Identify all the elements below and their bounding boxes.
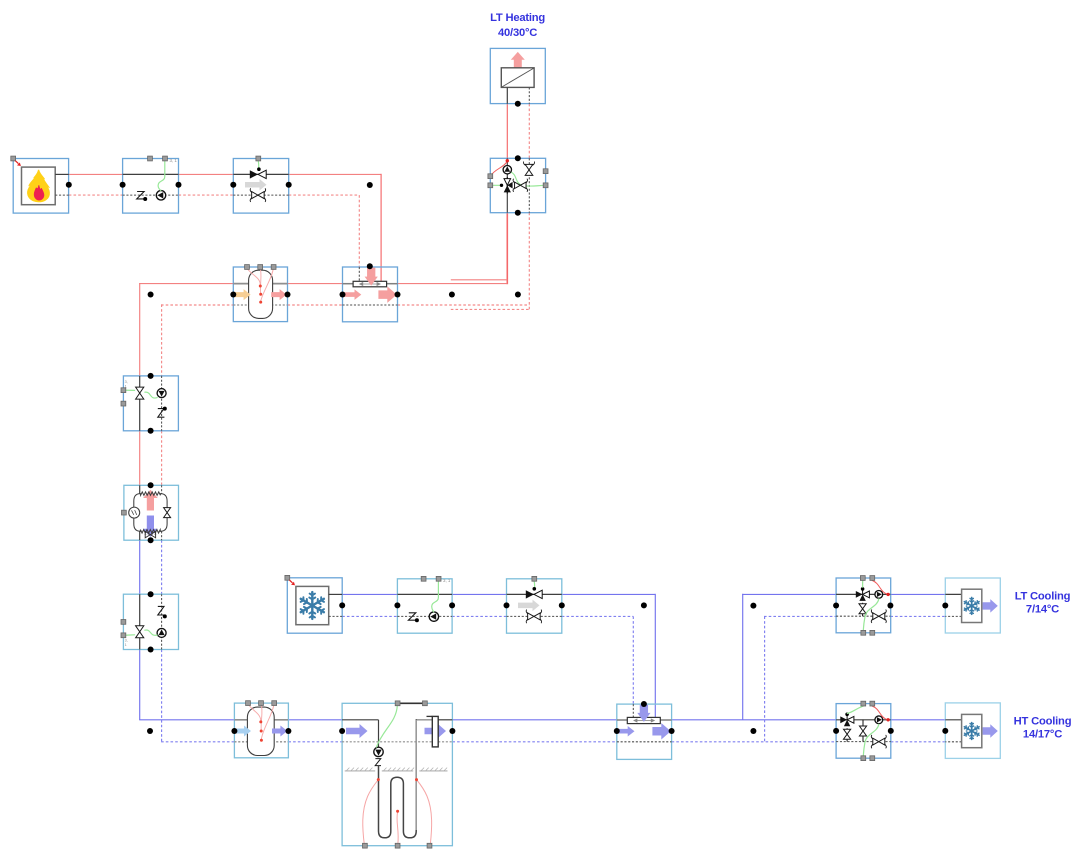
LT heating unit handles xyxy=(488,174,493,179)
LT heating emitter radiator symbol xyxy=(501,68,534,88)
HT cooling valve group xyxy=(836,704,891,759)
boiler flow marker arrow xyxy=(15,161,18,164)
borefield top handles xyxy=(398,702,425,704)
wire cooling supply corner to buffer xyxy=(139,719,234,721)
buffer cooling outlet arrow xyxy=(272,726,287,737)
node heating valve unit outlet xyxy=(286,182,292,188)
pump cooling generation return xyxy=(157,628,166,637)
node heating header mid junction xyxy=(449,292,455,298)
balancing valve LT cooling bypass xyxy=(862,603,864,616)
borefield separator bar xyxy=(432,716,438,747)
LT heating pump valve unit xyxy=(490,158,545,212)
LT heating emitter heat arrow xyxy=(511,52,525,69)
three-way valve LT heating xyxy=(506,177,508,194)
node manifold heating left xyxy=(340,292,346,298)
balancing valve LT heating return xyxy=(525,164,533,170)
HT cooling emitter supply stub xyxy=(945,719,961,721)
wire cooling return borefield to manifold xyxy=(452,741,616,743)
heating pump control line xyxy=(158,161,165,191)
wire heating supply pump unit to valve unit xyxy=(179,173,234,175)
node HT cooling group outlet xyxy=(888,728,894,734)
check valve cooling generation xyxy=(158,606,165,615)
buffer cooling stratification curves xyxy=(248,704,261,722)
buffer cooling handles xyxy=(246,701,251,706)
borefield bottom handles xyxy=(363,843,368,848)
chiller corner handle xyxy=(285,575,290,580)
chiller snowflake icon xyxy=(311,592,313,605)
heating valve unit return line xyxy=(233,194,288,196)
node buffer cooling outlet xyxy=(285,728,291,734)
manifold cooling bar xyxy=(627,717,660,723)
heat pump cold arrow xyxy=(143,516,158,537)
node LT cooling riser bottom junction xyxy=(750,728,756,734)
wire chilled supply valve group to drop xyxy=(562,593,655,595)
boiler return stub xyxy=(55,194,69,196)
node manifold cooling right xyxy=(669,728,675,734)
borefield ground surface hatch xyxy=(345,770,376,772)
pump LT cooling xyxy=(875,591,883,599)
wire cooling supply heat pump to pump group xyxy=(139,540,141,594)
borefield supply line left xyxy=(342,719,378,721)
balancing valve LT cooling return xyxy=(873,613,879,620)
LT heating emitter return stub xyxy=(528,87,530,103)
svg-text:HT Cooling: HT Cooling xyxy=(1014,716,1072,728)
wire heating header supply manifold to riser xyxy=(398,283,508,285)
manifold heating feed arrow xyxy=(365,268,378,286)
wire heating supply valve unit to manifold riser xyxy=(289,173,381,175)
LT heating emitter supply stub xyxy=(506,87,508,103)
wire LT cooling supply valve group to emitter xyxy=(890,593,945,595)
node LT cooling riser top junction xyxy=(750,603,756,609)
wire heating return pump unit to valve unit xyxy=(179,194,234,196)
node V1 top xyxy=(148,373,154,379)
node buffer cooling inlet xyxy=(231,728,237,734)
node buffer heating inlet xyxy=(230,292,236,298)
chiller xyxy=(287,578,342,633)
LT cooling emitter arrow xyxy=(983,599,998,613)
pump borefield xyxy=(374,747,383,756)
node heating header riser junction xyxy=(515,292,521,298)
LT heating emitter unit xyxy=(490,48,545,103)
manifold cooling branch arrow small xyxy=(618,726,635,737)
heat pump bottom valve xyxy=(145,534,157,536)
node V2 top xyxy=(148,591,154,597)
LT cooling supply line xyxy=(836,593,890,595)
node heating top corner junction xyxy=(367,182,373,188)
wire cooling return HT valve group to emitter xyxy=(891,741,946,743)
valve heating generation supply xyxy=(136,387,144,393)
heat pump inlet stubs xyxy=(139,485,141,494)
boiler supply stub xyxy=(55,173,69,175)
borefield control line xyxy=(377,706,398,748)
wire cooling supply manifold to HT riser xyxy=(672,719,837,721)
node heating valve unit inlet xyxy=(230,182,236,188)
wire heating header return left segment xyxy=(161,304,233,306)
wire heating header supply parallel segment xyxy=(451,279,508,281)
wire LT cooling return riser xyxy=(764,616,766,741)
heat pump refrigerant circuit xyxy=(134,492,167,533)
node LT heating unit top xyxy=(515,155,521,161)
balancing valve chilled return xyxy=(528,613,534,620)
svg-text:1: 1 xyxy=(125,385,127,389)
wire LT cooling supply riser to valve group xyxy=(742,593,836,595)
svg-text:40/30°C: 40/30°C xyxy=(498,27,537,39)
heating pump unit return line xyxy=(123,194,179,196)
node HT cooling emitter inlet xyxy=(942,728,948,734)
C2 flow arrow xyxy=(518,600,540,612)
wire heating return valve group to heat pump xyxy=(161,431,163,486)
HT cooling supply line xyxy=(836,719,891,721)
node heating pump unit outlet xyxy=(176,182,182,188)
heat pump compressor xyxy=(129,507,140,518)
wire LT heating return riser pump unit to header xyxy=(528,213,530,310)
wire heating return drop to generation group xyxy=(161,304,163,376)
borefield return dashed line xyxy=(342,741,432,743)
wire chilled return valve group to drop xyxy=(562,615,634,617)
buffer cooling inlet arrow xyxy=(236,726,251,737)
node C1 inlet xyxy=(394,602,400,608)
heating pump unit xyxy=(123,159,179,214)
borefield U-tube return leg overlay xyxy=(415,720,417,830)
V2 supply line xyxy=(139,594,141,649)
HT cooling pump signal xyxy=(872,706,886,719)
distribution manifold cooling xyxy=(617,704,672,759)
wire heating return boiler to pump unit xyxy=(69,194,123,196)
node manifold cooling top xyxy=(641,701,647,707)
borefield ground source unit xyxy=(342,703,452,845)
buffer vessel cooling xyxy=(234,703,288,758)
C2 handle xyxy=(532,576,537,581)
wire LT cooling return valve group to emitter xyxy=(890,615,945,617)
manifold cooling branch arrow large xyxy=(652,723,670,740)
three-way valve HT cooling xyxy=(846,715,848,720)
C2 control signal line xyxy=(533,582,536,589)
wire cooling return buffer to borefield xyxy=(288,741,342,743)
HT cooling group handles xyxy=(861,701,866,706)
manifold cooling feed arrow xyxy=(637,705,650,722)
LT cooling return line xyxy=(836,615,890,617)
wire cooling return heat pump to pump group xyxy=(161,540,163,594)
cooling generation pump group xyxy=(123,594,178,649)
node HT cooling group inlet xyxy=(833,728,839,734)
heating control valve signal line xyxy=(257,161,260,168)
heating valve unit handle xyxy=(256,156,261,161)
node chilled drop junction xyxy=(641,602,647,608)
valve cooling generation supply xyxy=(136,626,144,632)
balancing valve LT heating bypass xyxy=(515,182,521,189)
pump LT heating supply xyxy=(503,166,511,174)
heating valve unit supply line xyxy=(233,173,288,175)
wire heating header supply buffer to manifold xyxy=(288,283,343,285)
LT cooling group handles xyxy=(860,576,865,581)
node manifold cooling left xyxy=(614,728,620,734)
manifold heating branch arrow large xyxy=(378,286,396,303)
chilled water pump unit xyxy=(397,579,452,633)
wire cooling return manifold to HT riser xyxy=(672,741,837,743)
heat pump expansion valve xyxy=(164,508,171,513)
wire chilled supply pump group to valve group xyxy=(452,593,506,595)
balancing valve HT cooling branch xyxy=(846,728,848,741)
V2 handles xyxy=(121,620,126,625)
node boiler outlet xyxy=(66,182,72,188)
chilled water valve unit xyxy=(507,579,562,633)
C1 handles xyxy=(421,576,426,581)
node chiller outlet xyxy=(339,602,345,608)
V1 return line xyxy=(161,376,163,431)
LT cooling pump signal xyxy=(872,581,886,595)
node cooling bottom left corner junction xyxy=(147,728,153,734)
check valve chilled return xyxy=(408,613,416,620)
wire LT heating return emitter to pump unit xyxy=(528,104,530,159)
heat pump hot arrow xyxy=(143,490,158,511)
node manifold heating right xyxy=(395,292,401,298)
borefield inlet arrow xyxy=(346,724,368,738)
HT cooling emitter xyxy=(945,703,1000,759)
wire cooling return down from pump group xyxy=(161,650,163,742)
node buffer heating outlet xyxy=(285,292,291,298)
LT heating unit supply line xyxy=(506,158,508,212)
wire cooling supply HT valve group to emitter xyxy=(891,719,946,721)
chiller supply stub xyxy=(329,593,343,595)
HT cooling emitter arrow xyxy=(983,724,998,738)
wire heating header supply left segment xyxy=(139,283,233,285)
node C2 inlet xyxy=(504,602,510,608)
node heat pump bottom xyxy=(148,537,154,543)
control valve chilled supply xyxy=(526,590,534,598)
LT heating unit control lines xyxy=(490,184,500,186)
node heating pump unit inlet xyxy=(120,182,126,188)
LT heating unit return line xyxy=(528,158,530,212)
C2 return line xyxy=(507,615,562,617)
V1 control lines xyxy=(123,389,134,391)
chiller flow marker arrow xyxy=(289,580,292,583)
HT cooling emitter return stub xyxy=(945,741,961,743)
wire heating header return parallel segment xyxy=(451,308,530,310)
V1 handles xyxy=(121,388,126,393)
borefield outlet arrow xyxy=(425,724,447,738)
LT cooling emitter xyxy=(945,578,1000,633)
node borefield inlet xyxy=(339,728,345,734)
wire heating header return buffer to manifold xyxy=(288,304,343,306)
buffer heating stratification curves xyxy=(247,268,261,286)
svg-text:3, 1: 3, 1 xyxy=(443,578,451,583)
heating pump unit supply line xyxy=(123,173,179,175)
node C1 outlet xyxy=(449,602,455,608)
LT cooling emitter supply stub xyxy=(945,593,961,595)
wire heating supply drop to generation group xyxy=(139,283,141,376)
node manifold heating top xyxy=(367,263,373,269)
heating valve unit flow arrow xyxy=(245,179,267,191)
V2 return line xyxy=(161,594,163,649)
balancing valve HT cooling bypass xyxy=(862,720,864,742)
LT cooling emitter return stub xyxy=(945,615,961,617)
svg-text:3, 1: 3, 1 xyxy=(170,158,178,163)
wire chilled supply drop to manifold xyxy=(654,594,656,718)
boiler corner handle xyxy=(11,156,16,161)
check valve borefield xyxy=(375,759,381,766)
svg-text:14/17°C: 14/17°C xyxy=(1023,729,1062,741)
borefield return line right xyxy=(416,719,432,721)
node LT cooling emitter inlet xyxy=(942,603,948,609)
manifold heating return drop inside xyxy=(358,267,360,281)
wire heating supply valve group to heat pump xyxy=(139,431,141,486)
HT cooling emitter coil symbol xyxy=(962,714,982,747)
wire cooling supply down from pump group xyxy=(139,650,141,720)
C1 control line xyxy=(432,582,439,612)
node borefield outlet xyxy=(449,728,455,734)
balancing valve heating return xyxy=(252,192,258,199)
C2 supply line xyxy=(507,593,562,595)
node LT heating emitter connection xyxy=(515,101,521,107)
check valve heating return xyxy=(137,192,145,199)
wire LT heating supply emitter to pump unit xyxy=(506,104,508,159)
heat pump xyxy=(124,485,179,540)
boiler xyxy=(13,159,68,214)
node LT heating unit bottom xyxy=(515,210,521,216)
svg-text:3,: 3, xyxy=(125,380,128,384)
buffer heating outlet arrow xyxy=(271,289,286,300)
svg-text:7/14°C: 7/14°C xyxy=(1026,603,1059,615)
heating valve unit xyxy=(233,159,288,214)
heating pump unit handles xyxy=(148,156,153,161)
node C2 outlet xyxy=(559,602,565,608)
buffer heating inlet arrow xyxy=(235,289,251,300)
svg-text:LT Heating: LT Heating xyxy=(490,12,545,24)
boiler flame icon xyxy=(27,170,49,202)
wire chilled return pump group to valve group xyxy=(452,615,506,617)
wire LT heating supply riser pump unit to header xyxy=(506,213,508,285)
wire heating supply boiler to pump unit xyxy=(69,173,123,175)
node LT cooling group inlet xyxy=(833,603,839,609)
wire cooling return corner to buffer xyxy=(161,741,234,743)
node heating header left corner junction xyxy=(148,292,154,298)
LT heating pump signal marker xyxy=(490,162,507,177)
chiller return stub xyxy=(329,615,343,617)
V1 supply line xyxy=(139,376,141,431)
control valve heating supply xyxy=(250,170,258,178)
pump chilled return xyxy=(429,612,438,621)
C1 supply line xyxy=(397,593,452,595)
wire chilled supply chiller to pump group xyxy=(342,593,397,595)
wire LT cooling supply riser xyxy=(742,594,744,720)
manifold cooling return drop inside xyxy=(632,704,634,717)
C1 return line xyxy=(397,615,452,617)
wire chilled return drop to manifold xyxy=(632,616,634,704)
manifold heating branch arrow small xyxy=(344,289,362,300)
wire heating header return manifold to riser xyxy=(398,304,530,306)
three-way valve LT cooling xyxy=(862,589,864,594)
pump HT cooling xyxy=(875,716,883,724)
svg-text:3,: 3, xyxy=(125,639,128,643)
distribution manifold heating xyxy=(343,267,398,322)
borefield supply drop xyxy=(378,720,380,748)
manifold heating bar xyxy=(353,281,387,287)
wire heating supply riser down to manifold xyxy=(380,174,382,282)
svg-text:LT Cooling: LT Cooling xyxy=(1015,590,1071,602)
LT cooling valve group xyxy=(836,578,891,633)
HT cooling return line xyxy=(836,741,891,743)
LT cooling emitter coil symbol xyxy=(962,589,982,622)
buffer heating handles xyxy=(245,265,250,270)
wire chilled return chiller to pump group xyxy=(342,615,397,617)
pump heating return xyxy=(156,191,165,200)
heating generation valve group xyxy=(123,376,178,431)
node LT cooling group outlet xyxy=(887,603,893,609)
HT cooling control lines xyxy=(847,706,863,713)
borefield U-tube loop xyxy=(379,720,417,838)
check valve heating generation xyxy=(158,409,165,418)
LT cooling control lines xyxy=(862,581,864,588)
wire heating return riser down to manifold xyxy=(358,195,360,267)
balancing valve HT cooling return xyxy=(873,738,879,745)
buffer vessel heating xyxy=(233,267,287,322)
borefield heat flow curves xyxy=(363,780,378,845)
node V2 bottom xyxy=(148,647,154,653)
wire cooling supply buffer to borefield xyxy=(288,719,342,721)
wire LT cooling return riser to valve group xyxy=(764,615,836,617)
wire cooling supply borefield to manifold xyxy=(452,719,616,721)
wire heating return valve unit to riser xyxy=(289,194,359,196)
heat pump handle xyxy=(122,510,127,515)
node V1 bottom xyxy=(148,428,154,434)
svg-text:1: 1 xyxy=(125,643,127,647)
pump heating generation return xyxy=(157,389,166,398)
V2 control lines xyxy=(123,634,134,637)
node heat pump top xyxy=(148,482,154,488)
